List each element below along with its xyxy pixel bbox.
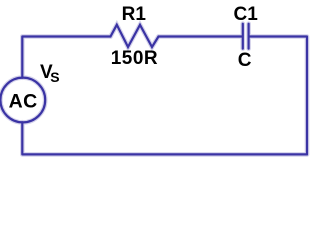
label Vs	[40, 62, 60, 85]
wire capacitor to top-right corner down right side	[250, 37, 307, 155]
wire top-left from source to resistor	[22, 37, 110, 78]
svg-text:R1: R1	[122, 4, 147, 25]
svg-text:C1: C1	[234, 4, 259, 25]
wire bottom	[22, 122, 307, 154]
svg-text:AC: AC	[9, 91, 38, 113]
capacitor C1	[243, 24, 249, 49]
resistor R1	[111, 25, 159, 47]
wire resistor to capacitor	[159, 35, 242, 37]
svg-text:150R: 150R	[111, 48, 158, 69]
svg-text:C: C	[238, 50, 252, 71]
svg-text:S: S	[50, 69, 59, 85]
AC source V1	[0, 78, 45, 123]
